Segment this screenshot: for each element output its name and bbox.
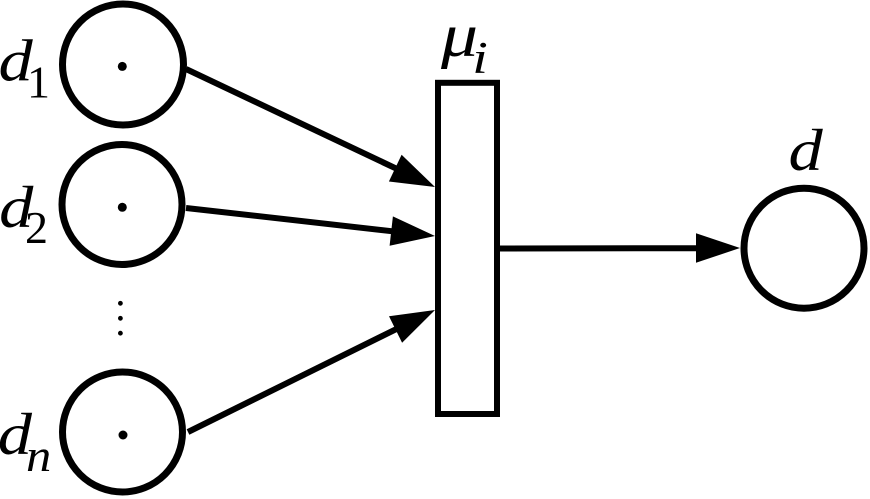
label d1 (0, 28, 50, 108)
transition mu_i (rectangle) (438, 83, 497, 414)
place d2 (circle) (62, 145, 182, 265)
label mu_i (transition rate) (440, 2, 488, 84)
svg-text:d: d (789, 117, 824, 183)
arc d1 to transition (wire) (186, 69, 435, 187)
vertical ellipsis dots (118, 301, 123, 336)
arc d2 to transition (wire) (186, 208, 435, 246)
arc dn to transition (wire) (188, 310, 435, 432)
place d output (circle) (744, 188, 864, 308)
svg-text:1: 1 (27, 57, 50, 108)
token in d1 (118, 62, 127, 71)
place dn (circle) (63, 372, 183, 492)
place d1 (circle) (63, 4, 184, 125)
token in d2 (118, 203, 127, 212)
svg-text:n: n (26, 431, 51, 481)
svg-text:2: 2 (25, 202, 48, 253)
arc transition to d (wire) (500, 233, 740, 262)
label dn (0, 401, 51, 481)
label d2 (0, 174, 48, 253)
token in dn (119, 431, 128, 440)
svg-text:i: i (472, 34, 488, 83)
